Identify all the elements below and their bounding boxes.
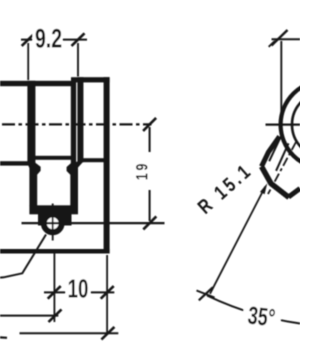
svg-text:19: 19	[134, 161, 152, 180]
svg-text:9.2: 9.2	[35, 23, 62, 53]
svg-text:10: 10	[68, 273, 89, 303]
svg-text:35°: 35°	[246, 301, 276, 333]
